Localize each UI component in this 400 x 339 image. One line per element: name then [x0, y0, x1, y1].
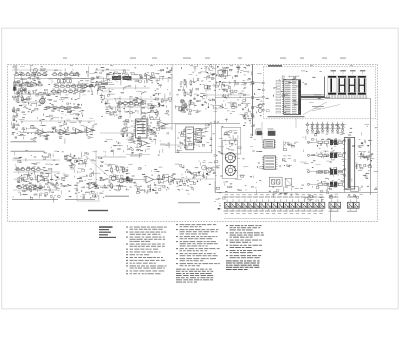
- resistor box R10 (dark): [112, 76, 121, 80]
- cluster topmid extra: [224, 67, 225, 68]
- op-amp U1B: [82, 84, 89, 90]
- switch cell S12: [278, 199, 284, 211]
- resistor R1: [14, 81, 16, 83]
- cluster x185 low: [185, 136, 187, 139]
- wire: [20, 120, 95, 122]
- wire texture B3: [121, 117, 169, 143]
- wire: [96, 156, 126, 158]
- switch cell S3: [224, 199, 230, 211]
- cluster below connector: [326, 134, 328, 136]
- resistor row E2a: [15, 167, 42, 170]
- signal chain row: [45, 107, 80, 109]
- switch cell S6: [242, 199, 248, 211]
- board label A/D: [88, 210, 108, 211]
- op-amp U15 cluster: [16, 166, 60, 197]
- wire: [100, 179, 130, 181]
- wire texture A1: [13, 66, 113, 98]
- junction right: [358, 156, 371, 158]
- resistor row A1e: [51, 89, 86, 93]
- resistor R2: [19, 84, 21, 86]
- wire: [253, 96, 263, 99]
- switch cell S13: [284, 199, 290, 211]
- lf stack R33: [111, 183, 113, 185]
- box components x221-241: [221, 128, 241, 155]
- resistor row A1c: [15, 82, 44, 86]
- wire: [95, 150, 97, 186]
- cluster triangle row: [59, 133, 61, 134]
- relay box K1: [351, 187, 359, 192]
- resistor R6: [21, 96, 23, 98]
- cluster right of U9: [287, 144, 288, 145]
- wire: [96, 185, 120, 187]
- wire: [44, 106, 81, 108]
- cluster switch left end: [223, 197, 225, 199]
- cluster around U5: [124, 132, 127, 133]
- regulator IC U20: [343, 137, 355, 189]
- gnd symbol right: [364, 173, 368, 178]
- vert wire right: [370, 98, 372, 195]
- xtal box B2: [285, 178, 292, 185]
- op-amp U4A: [38, 130, 45, 136]
- fuse box F1: [256, 129, 262, 136]
- wire: [12, 69, 60, 71]
- wire: [214, 181, 216, 193]
- op-amp U6: [159, 122, 166, 128]
- notes column 3: [226, 225, 264, 258]
- resistor row A1a: [14, 72, 49, 76]
- switch top labels 2: [225, 193, 323, 196]
- cluster U6: [154, 118, 157, 120]
- main lf chain cluster: [120, 185, 123, 186]
- leader text: [312, 105, 324, 108]
- wire: [95, 69, 130, 71]
- 7-seg digit 1: [328, 76, 337, 95]
- op-amp U14: [169, 176, 176, 183]
- wire: [295, 118, 297, 128]
- resistor row E2b: [17, 185, 44, 188]
- label box: [126, 155, 150, 157]
- lf stack R30: [111, 167, 113, 169]
- 7-seg digit 4: [358, 76, 367, 95]
- ribbon wires U10 to display: [301, 94, 325, 99]
- cluster right bottom: [364, 164, 366, 166]
- wire: [15, 93, 60, 95]
- label bracket 1: [12, 198, 58, 201]
- switch cell S5: [236, 199, 242, 211]
- wire texture A2: [13, 96, 84, 117]
- power row 3: [307, 167, 344, 176]
- wire: [14, 79, 16, 95]
- resistor network: [16, 87, 26, 95]
- cluster right of U5: [151, 132, 154, 133]
- rotary switch box: [222, 141, 237, 179]
- switch cell S7: [248, 199, 254, 211]
- power row 1: [307, 138, 342, 147]
- wire display right: [368, 97, 371, 99]
- wire below switches: [224, 217, 310, 219]
- switch cell S9: [260, 199, 266, 211]
- wire: [215, 97, 251, 99]
- IC U8: [196, 129, 201, 143]
- cluster bus left: [247, 109, 249, 112]
- wire texture G1: [300, 124, 378, 193]
- wire texture E1: [105, 139, 170, 158]
- wire texture B2: [101, 95, 170, 119]
- display board outline: [263, 67, 375, 119]
- digit labels: [331, 70, 366, 74]
- wire: [15, 78, 95, 80]
- cluster far right mid: [363, 157, 365, 159]
- cap pair C20 C21: [218, 69, 228, 77]
- switch top labels: [224, 196, 324, 199]
- wire texture E3: [100, 164, 200, 193]
- diode D3: [204, 85, 208, 92]
- 7-seg digit 2: [338, 76, 347, 95]
- wire: [13, 189, 58, 191]
- input jack J1: [14, 66, 18, 75]
- capacitor C1 (input, dark): [13, 87, 16, 91]
- comp row y100 x180-198: [180, 100, 201, 115]
- wire: [261, 122, 263, 140]
- op-amp U4D: [87, 128, 94, 134]
- IC U7: [184, 127, 195, 150]
- lf stack R31: [117, 166, 119, 168]
- bus junction 2: [251, 96, 254, 99]
- texture row y94: [38, 92, 40, 94]
- resistor stack: [13, 107, 15, 130]
- trimmer VR1: [40, 96, 45, 104]
- switch cell S11: [272, 199, 278, 211]
- digit pin ticks: [327, 95, 367, 98]
- wire: [215, 82, 251, 84]
- rotary switch S2: [225, 165, 235, 175]
- wire: [253, 82, 263, 85]
- label right: [178, 201, 200, 204]
- op-amp U16: [78, 180, 99, 200]
- grid ref ticks top: [30, 64, 353, 67]
- cluster below input: [16, 97, 18, 99]
- comp group mid: [158, 174, 166, 184]
- long wire y123.5: [163, 123, 240, 125]
- switch bottom labels 2: [225, 212, 323, 215]
- wire: [50, 78, 172, 80]
- resistor row B2a: [117, 101, 146, 105]
- wire texture D1: [199, 124, 264, 186]
- terminal row 1: [305, 122, 346, 126]
- label bracket 2: [65, 198, 95, 201]
- vert wire set: [120, 96, 141, 118]
- wire texture swl: [216, 186, 303, 197]
- leader line 1: [303, 102, 327, 115]
- resistor box R11 (dark): [123, 76, 132, 80]
- cluster x225 y76-95: [224, 89, 226, 90]
- cluster topmid: [209, 86, 211, 88]
- switch cell S14: [290, 199, 296, 211]
- wire texture C2: [242, 68, 262, 124]
- big IC U5: [134, 119, 150, 138]
- wire: [100, 132, 135, 134]
- cluster U2: [145, 74, 146, 76]
- bus wire above switches: [215, 192, 377, 194]
- label chain: [105, 196, 129, 197]
- op-amp U12: [67, 155, 74, 161]
- wire: [105, 106, 160, 108]
- cluster x205-235 y98: [231, 105, 234, 106]
- leader line 2: [312, 105, 340, 112]
- cluster E2 extra: [54, 174, 55, 175]
- vert wire x344: [344, 186, 346, 193]
- wire: [203, 94, 250, 96]
- op-amp U1A: [31, 82, 38, 88]
- cluster y99-117 x140-160: [157, 115, 158, 116]
- transistor Q1: [33, 68, 46, 75]
- notes column 1: [126, 227, 167, 275]
- cluster in U7 box: [182, 143, 183, 144]
- connector row top: [311, 124, 345, 131]
- notes column 2 paragraph: [176, 269, 213, 283]
- antenna symbol 3: [237, 66, 241, 72]
- wire: [152, 127, 172, 129]
- cluster midleft: [102, 82, 106, 84]
- transistor pair below box: [258, 104, 262, 113]
- wire: [215, 64, 217, 192]
- box edge bottom left: [77, 184, 100, 201]
- cluster right of U20 row2: [368, 154, 370, 158]
- wire under digits: [325, 97, 368, 99]
- switch cell S10: [266, 199, 272, 211]
- wire texture B1: [96, 67, 173, 99]
- wire: [253, 104, 263, 108]
- cluster above R10: [108, 71, 134, 77]
- cluster right of U20 row1: [361, 142, 363, 144]
- texture cluster input: [29, 85, 31, 87]
- cluster midmid extra: [225, 118, 227, 122]
- wire: [171, 64, 173, 78]
- transistors left edge: [200, 161, 218, 181]
- switch group 3: [347, 194, 363, 211]
- cluster above group1 right: [305, 197, 309, 199]
- dashed box U7 area: [175, 124, 211, 153]
- vert wire x330: [329, 209, 331, 221]
- bus junction 1: [251, 81, 254, 84]
- cluster y99 x201-219: [208, 106, 209, 108]
- switch cell S15: [296, 199, 302, 211]
- cluster left column: [16, 124, 17, 125]
- IC U11: [262, 156, 278, 169]
- wire: [88, 158, 108, 176]
- 7-seg digit 3: [348, 76, 357, 95]
- cluster chain: [67, 110, 70, 112]
- wire: [12, 159, 60, 161]
- display board caption: [268, 116, 305, 117]
- bus junction 3: [251, 106, 254, 109]
- rotary switch S1: [225, 153, 235, 163]
- op-amp U2: [147, 75, 154, 81]
- chain right cluster: [193, 173, 196, 175]
- wire: [100, 98, 170, 100]
- display driver IC U10: [282, 80, 301, 115]
- schematic frame border: [8, 64, 378, 221]
- wire: [130, 179, 146, 181]
- lf stack R32: [123, 167, 125, 169]
- resistor column x185: [184, 80, 192, 110]
- notes column 2: [176, 224, 220, 266]
- wire bracket to digit1: [325, 77, 331, 98]
- resistor row A1d: [54, 84, 89, 88]
- fuse box F2: [268, 129, 276, 136]
- wire texture C1: [175, 64, 251, 112]
- cluster mid y96: [159, 105, 160, 106]
- xtal box B1: [269, 177, 282, 186]
- switch bottom labels: [224, 210, 324, 213]
- wire: [20, 131, 88, 133]
- lf dark cap: [126, 177, 128, 182]
- cluster preamp top: [127, 139, 150, 152]
- diode D10: [355, 164, 358, 169]
- op-amp U3: [137, 98, 144, 104]
- switch cell S16: [301, 199, 307, 211]
- wire: [16, 101, 45, 103]
- cluster left edge mid2: [201, 131, 205, 133]
- margin marks above border: [63, 57, 346, 60]
- wire: [171, 75, 173, 130]
- op-amp U13: [146, 176, 154, 183]
- wire texture A3: [12, 117, 97, 144]
- lf transistor Q5: [111, 176, 116, 181]
- antenna symbol 2: [204, 67, 208, 73]
- wire: [176, 178, 215, 180]
- wire: [160, 144, 200, 146]
- text row tl2: [11, 150, 45, 153]
- switch cell S4: [230, 199, 236, 211]
- electrolytic C9: [40, 98, 45, 103]
- capacitor stack 1: [58, 78, 72, 84]
- switch cell S8: [254, 199, 260, 211]
- connector circles on box left: [262, 82, 264, 111]
- text row tl1: [11, 140, 37, 143]
- wire: [100, 87, 150, 89]
- switch cell S17: [307, 199, 313, 211]
- cluster around U1B: [77, 85, 79, 88]
- terminal ticks: [306, 132, 343, 135]
- switch cell S18: [313, 199, 319, 211]
- terminal row 2: [306, 126, 343, 132]
- capacitor C3: [25, 98, 31, 101]
- bus wire vertical: [252, 64, 254, 136]
- resistor row A1b: [52, 72, 81, 76]
- notes column 3 paragraph: [226, 260, 260, 270]
- vert chain x182: [180, 99, 192, 113]
- cluster above U10: [295, 75, 299, 77]
- bus junction 4: [251, 115, 254, 118]
- wire texture E2: [13, 150, 109, 203]
- title block: [99, 226, 116, 238]
- cluster x185: [197, 78, 199, 80]
- power row 4: [307, 180, 344, 190]
- wire: [13, 171, 60, 173]
- op-amp U4B: [60, 130, 67, 136]
- resistor R5: [17, 95, 19, 97]
- lf stack R34: [119, 185, 121, 187]
- wire texture disp: [266, 71, 322, 113]
- noise under chain: [153, 189, 157, 191]
- cluster U12: [76, 160, 78, 162]
- display board label: [268, 65, 282, 66]
- switch cell S19: [319, 199, 325, 211]
- lf transistor Q6: [119, 178, 124, 183]
- cluster U3: [112, 110, 115, 112]
- switch group 2: [329, 194, 341, 212]
- cluster right of U11: [288, 158, 291, 160]
- antenna symbol 1: [193, 67, 197, 72]
- IC U9: [262, 140, 276, 148]
- power row 2: [307, 151, 342, 161]
- resistor column left of U10: [276, 81, 281, 114]
- op-amp U4C: [76, 129, 83, 135]
